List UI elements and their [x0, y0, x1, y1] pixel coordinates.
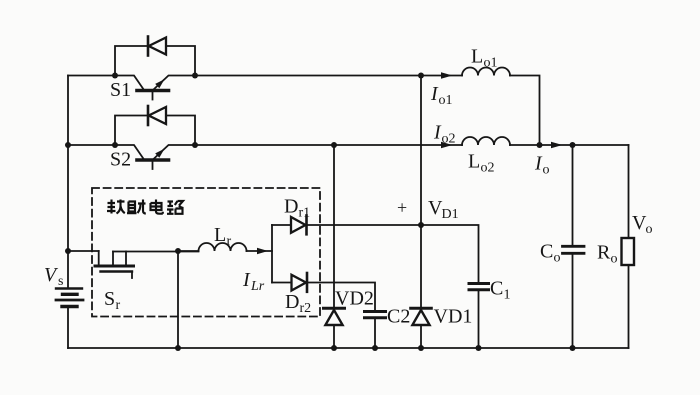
capacitor C2 bottom plate	[365, 316, 386, 319]
diode Dr2 cathode bar	[306, 273, 309, 292]
transistor S1 emitter arrow	[155, 79, 164, 88]
svg-text:+: +	[397, 198, 407, 218]
node bottom rail C1	[476, 345, 482, 351]
capacitor Co top plate	[563, 245, 585, 248]
wire Dr1 to node VD1 and to C1 corner	[307, 225, 479, 283]
svg-text:L: L	[471, 46, 483, 68]
svg-text:VD2: VD2	[335, 288, 374, 310]
svg-text:o2: o2	[481, 161, 495, 176]
svg-text:L: L	[214, 224, 226, 246]
wire VD2 to bottom rail	[333, 325, 335, 348]
diode VD1 triangle	[412, 310, 429, 325]
svg-text:R: R	[597, 242, 611, 264]
svg-text:o2: o2	[442, 132, 456, 147]
resistor Ro body	[622, 238, 635, 265]
wire bottom rail	[68, 347, 629, 349]
current arrow Io1 head	[441, 72, 453, 79]
node S2 left	[112, 142, 118, 148]
wire VD2 branch vertical	[333, 145, 335, 308]
transistor S1 base stub	[152, 92, 154, 100]
node on top rail at S1 left	[112, 73, 118, 79]
svg-text:r: r	[227, 234, 232, 249]
inductor Lo2	[462, 137, 510, 145]
transistor S2 emitter lead	[153, 145, 195, 160]
wire splitter vertical	[271, 225, 273, 283]
svg-text:D: D	[284, 196, 298, 218]
wire Ro to bottom rail	[628, 265, 630, 348]
current arrow ILr head	[257, 248, 268, 255]
transistor S2 emitter arrow	[155, 149, 164, 158]
node output at Co branch	[570, 142, 576, 148]
battery Vs plate long	[56, 299, 83, 302]
wire Lr to splitter	[247, 250, 273, 252]
svg-text:VD1: VD1	[434, 306, 473, 328]
transistor S2 collector lead	[115, 145, 144, 160]
svg-text:L: L	[468, 151, 480, 173]
wire splitter to Dr2	[272, 282, 292, 284]
mosfet Sr source stubs	[113, 252, 126, 267]
wire left vertical rail lower (below battery)	[67, 307, 69, 349]
label aux box title 辅助电路	[107, 200, 184, 214]
wire node to Lr	[178, 250, 199, 252]
transistor S2 base stub	[152, 162, 154, 170]
current arrow Io head	[551, 142, 563, 149]
node bottom rail C2	[372, 345, 378, 351]
mosfet Sr gate lead	[131, 272, 133, 279]
battery Vs plate long top	[56, 287, 82, 289]
svg-text:D1: D1	[442, 207, 459, 222]
mosfet Sr top link	[113, 251, 126, 253]
node on left rail at aux row	[65, 248, 71, 254]
dashed box auxiliary circuit	[92, 188, 320, 317]
node bottom rail VD2	[331, 345, 337, 351]
transistor S1 collector lead	[115, 76, 144, 91]
wire splitter to Dr1	[272, 224, 291, 226]
wire Co to bottom rail	[572, 254, 574, 349]
wire Sr output to Lr	[126, 251, 199, 253]
capacitor C2 top plate	[365, 310, 386, 313]
wire left vertical rail upper	[67, 76, 69, 289]
svg-text:Lr: Lr	[250, 279, 265, 294]
transistor S1 base bar	[137, 89, 169, 93]
diode Dr1 triangle	[291, 217, 306, 233]
current arrow Io2 head	[441, 142, 453, 149]
svg-text:V: V	[44, 264, 59, 286]
svg-text:o: o	[543, 163, 550, 178]
battery Vs plate short	[63, 293, 78, 296]
svg-text:S1: S1	[110, 79, 131, 101]
diode VD2 triangle	[325, 310, 342, 325]
capacitor Co bottom plate	[563, 252, 585, 255]
capacitor C1 bottom plate	[469, 288, 489, 291]
wire Dr2 to C2 corner	[307, 283, 375, 312]
svg-text:o1: o1	[439, 93, 453, 108]
mosfet Sr channel bar	[95, 265, 134, 268]
diode across S1 triangle	[149, 38, 166, 55]
svg-text:C: C	[540, 241, 553, 263]
wire C1 to bottom rail	[478, 290, 480, 348]
svg-text:o: o	[611, 252, 618, 267]
node S2 right	[192, 142, 198, 148]
diode across S2 left leg	[115, 116, 148, 146]
svg-text:C2: C2	[387, 306, 410, 328]
wire S2 rail middle segment	[195, 144, 462, 146]
wire right branch down to Ro	[628, 145, 630, 238]
svg-text:s: s	[58, 274, 63, 289]
wire S2 rail left segment	[68, 144, 115, 146]
svg-text:o1: o1	[484, 56, 498, 71]
svg-text:S: S	[104, 288, 115, 310]
svg-text:I: I	[242, 269, 251, 291]
node S2 rail at VD2 branch	[331, 142, 337, 148]
svg-text:C: C	[490, 278, 503, 300]
svg-text:1: 1	[504, 288, 511, 303]
wire C2 to bottom rail	[374, 318, 376, 348]
wire auxiliary input from Vs node	[68, 250, 99, 252]
svg-text:o: o	[554, 251, 561, 266]
transistor S2 base bar	[137, 158, 169, 162]
svg-text:r2: r2	[300, 301, 312, 316]
node output junction Lo1/Lo2	[537, 142, 543, 148]
battery Vs plate short bottom	[62, 305, 77, 308]
inductor Lo1	[462, 68, 510, 76]
wire top rail left segment	[68, 75, 115, 77]
svg-text:r: r	[116, 298, 121, 313]
wire top rail middle segment	[195, 75, 421, 77]
diode Dr2 triangle	[292, 275, 307, 291]
transistor S1 emitter lead	[153, 76, 195, 91]
node on top rail at VD1 branch	[418, 73, 424, 79]
inductor Lr	[199, 243, 247, 251]
node VD1 top	[418, 222, 424, 228]
node bottom rail aux	[175, 345, 181, 351]
mosfet Sr drain lead	[98, 251, 100, 266]
diode across S2 cathode bar	[147, 106, 150, 125]
diode across S2 triangle	[149, 107, 166, 124]
diode VD2 cathode bar	[324, 307, 345, 310]
node bottom rail Co	[570, 345, 576, 351]
wire top rail to inductor Lo1	[421, 75, 462, 77]
svg-text:D: D	[285, 291, 299, 313]
wire Lo2 to right corner	[510, 144, 629, 146]
wire Co branch vertical	[572, 145, 574, 246]
wire aux node down to bottom rail	[177, 251, 179, 348]
node on top rail at S1 right	[192, 73, 198, 79]
wire VD1 to bottom rail	[420, 325, 422, 348]
mosfet Sr gate bar	[101, 270, 133, 272]
diode across S2 right leg	[166, 116, 195, 146]
capacitor C1 top plate	[469, 282, 489, 285]
node on left rail at S2 row	[65, 142, 71, 148]
svg-text:o: o	[646, 222, 653, 237]
diode VD1 cathode bar	[411, 307, 432, 310]
svg-text:S2: S2	[110, 149, 131, 171]
diode Dr1 cathode bar	[305, 216, 308, 235]
node bottom rail VD1	[418, 345, 424, 351]
diode across S1 left leg	[115, 46, 148, 76]
diode across S1 cathode bar	[147, 37, 150, 56]
wire Lo1 to corner and down to output node	[510, 76, 540, 146]
svg-text:r1: r1	[299, 206, 311, 221]
wire VD1 branch vertical from top rail	[420, 76, 422, 309]
diode across S1 right leg	[166, 46, 195, 76]
node aux Sr output	[175, 248, 181, 254]
